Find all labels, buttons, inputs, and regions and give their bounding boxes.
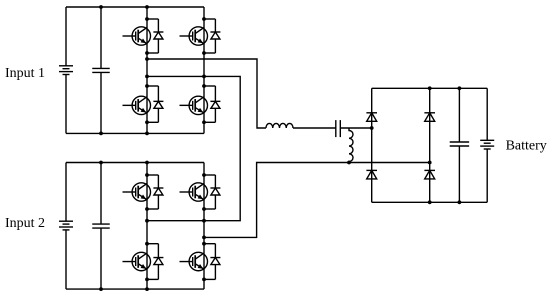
svg-text:Battery: Battery [506, 139, 547, 154]
node bottom rail / left leg [145, 132, 149, 136]
svg-text:Input 2: Input 2 [5, 216, 45, 231]
diode D4 (rectifier lower-right) [424, 170, 435, 179]
node bridge-2 left leg line1 [145, 219, 149, 223]
igbt S5 with diode (bridge-2 upper-left) [123, 173, 164, 211]
node bottom rail / C1 [99, 132, 103, 136]
wire bridge-1 right leg [203, 7, 205, 133]
wire bridge-2 left leg [146, 163, 148, 290]
igbt S7 with diode (bridge-2 lower-left) [123, 242, 164, 281]
wire bridge-1 output A to series inductor [147, 59, 266, 128]
node bridge-1 left leg line2 [145, 75, 149, 79]
node Lm bottom junction [347, 161, 351, 165]
igbt S2 with diode (bridge-1 upper-right) [180, 17, 221, 55]
capacitor Cr (series resonant) [336, 120, 341, 137]
wire output battery bottom lead [486, 149, 488, 202]
wire bottom rail input-1 bridge [66, 132, 204, 134]
wire input-2 cap top lead [100, 163, 102, 225]
wire input-1 cap bottom lead [100, 72, 102, 133]
wire output cap top lead [458, 88, 460, 142]
diode D1 (rectifier upper-left) [366, 113, 377, 122]
wire top rail input-1 bridge [66, 6, 204, 8]
diode D2 (rectifier upper-right) [424, 113, 435, 122]
wire rectifier right leg [429, 88, 431, 202]
wire input-2 cap bottom lead [100, 228, 102, 289]
node bridge-2 right leg line1 [202, 219, 206, 223]
wire rectifier left leg [371, 88, 373, 202]
inductor Lr (series resonant) [266, 123, 293, 128]
node rect bottom rail / D4 leg [428, 200, 432, 204]
wire input-1 battery top lead [65, 7, 67, 66]
wire bottom rail input-2 bridge [66, 288, 204, 290]
node bottom rail2 / C2 [99, 287, 103, 291]
capacitor Co (output filter) [450, 142, 469, 146]
node rect bottom rail / Co [458, 200, 462, 204]
node top rail / left leg [145, 5, 149, 9]
node rect top rail / Co [458, 86, 462, 90]
node top rail2 / left leg [145, 161, 149, 165]
wire input-1 battery bottom lead [65, 75, 67, 134]
wire input-1 cap top lead [100, 7, 102, 68]
wire top rail input-2 bridge [66, 162, 204, 164]
capacitor C1 (Input 1 dc-link) [92, 68, 110, 72]
node rectifier right leg input [428, 161, 432, 165]
igbt S3 with diode (bridge-1 lower-left) [123, 84, 164, 124]
node bridge-2 output B [202, 236, 206, 240]
igbt S4 with diode (bridge-1 lower-right) [180, 84, 221, 124]
svg-text:Input 1: Input 1 [5, 66, 45, 81]
node rectifier left leg input [370, 126, 374, 130]
wire output battery top lead [486, 88, 488, 140]
battery B3 (output Battery) [480, 140, 494, 149]
wire output cap bottom lead [458, 146, 460, 202]
wire bridge-2 right leg [203, 163, 205, 290]
diode D3 (rectifier lower-left) [366, 170, 377, 179]
node rect top rail / D2 leg [428, 86, 432, 90]
wire inductor to series capacitor [293, 127, 336, 129]
node top rail2 / C2 [99, 161, 103, 165]
igbt S8 with diode (bridge-2 lower-right) [180, 242, 221, 281]
wire series capacitor to rectifier left leg [340, 127, 371, 129]
battery B2 (Input 2 source) [59, 221, 73, 230]
inductor Lm (parallel/magnetizing) [349, 128, 353, 163]
wire input-2 battery bottom lead [65, 230, 67, 289]
battery B1 (Input 1 source) [59, 66, 73, 75]
wire rectifier top rail [372, 87, 488, 89]
wire bridge-1 output B to bridge-2 output A (series link) [147, 76, 240, 220]
wire bridge-1 left leg [146, 7, 148, 133]
wire bridge-2 output B to transformer return [204, 163, 430, 238]
igbt S6 with diode (bridge-2 upper-right) [180, 173, 221, 211]
node bridge-1 right leg line2 [202, 75, 206, 79]
node bottom rail2 / left leg [145, 287, 149, 291]
wire input-2 battery top lead [65, 163, 67, 222]
node bridge-1 output A [145, 57, 149, 61]
igbt S1 with diode (bridge-1 upper-left) [123, 17, 164, 55]
node top rail / C1 [99, 5, 103, 9]
capacitor C2 (Input 2 dc-link) [92, 224, 110, 228]
wire rectifier bottom rail [372, 201, 488, 203]
